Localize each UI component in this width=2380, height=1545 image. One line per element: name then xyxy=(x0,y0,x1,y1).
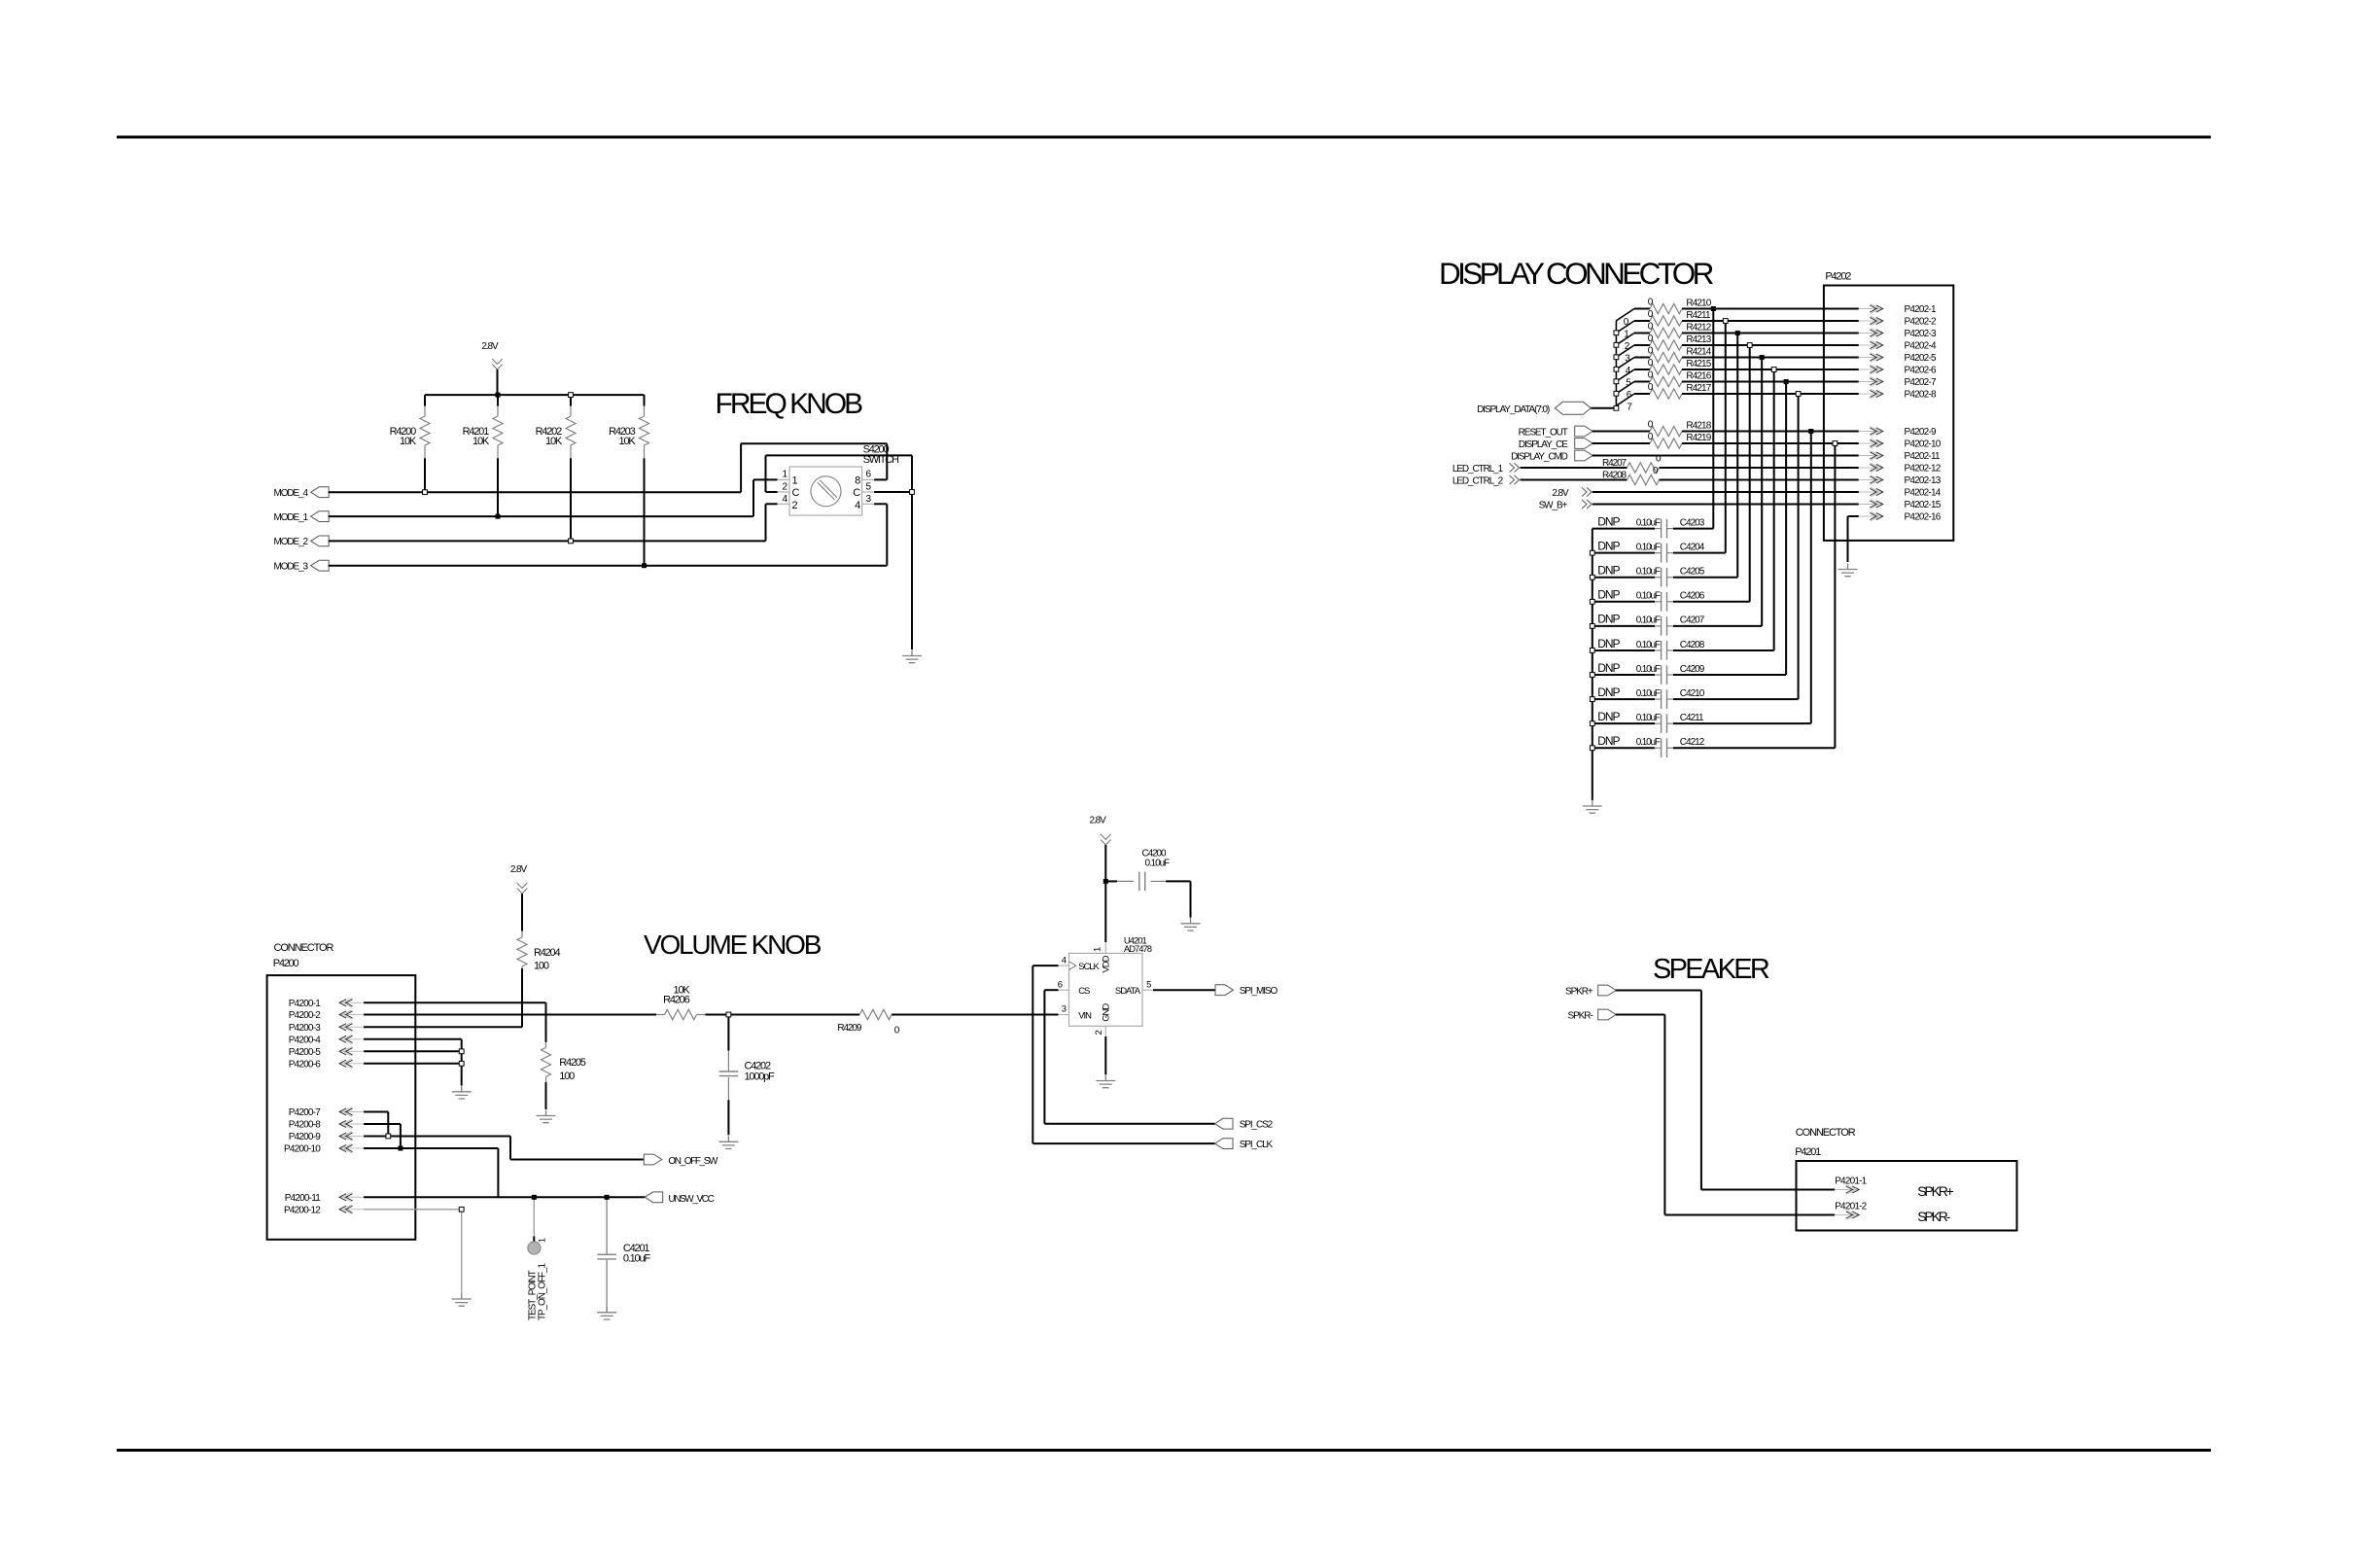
svg-text:R4207: R4207 xyxy=(1602,458,1627,469)
svg-text:R4208: R4208 xyxy=(1602,471,1627,481)
svg-text:5: 5 xyxy=(1146,979,1151,990)
svg-text:0.10uF: 0.10uF xyxy=(1636,737,1661,748)
svg-text:0.10uF: 0.10uF xyxy=(1636,517,1661,528)
svg-text:DNP: DNP xyxy=(1597,710,1620,723)
svg-text:P4202-14: P4202-14 xyxy=(1905,488,1942,499)
svg-text:SCLK: SCLK xyxy=(1078,962,1100,972)
svg-text:0.10uF: 0.10uF xyxy=(1636,664,1661,675)
svg-text:0.10uF: 0.10uF xyxy=(1636,567,1661,578)
svg-text:C4210: C4210 xyxy=(1680,688,1705,699)
svg-text:MODE_2: MODE_2 xyxy=(273,537,308,547)
svg-text:0.10uF: 0.10uF xyxy=(1636,542,1661,552)
svg-text:100: 100 xyxy=(559,1071,575,1082)
svg-text:P4200-5: P4200-5 xyxy=(289,1047,321,1058)
svg-text:SPKR+: SPKR+ xyxy=(1565,986,1593,997)
svg-text:P4201-2: P4201-2 xyxy=(1835,1201,1867,1211)
svg-text:P4200-8: P4200-8 xyxy=(289,1120,321,1131)
svg-text:P4202-4: P4202-4 xyxy=(1905,341,1937,352)
svg-text:0.10uF: 0.10uF xyxy=(1145,859,1171,869)
svg-text:DNP: DNP xyxy=(1597,539,1620,552)
svg-text:R4209: R4209 xyxy=(837,1023,862,1034)
svg-text:SPI_MISO: SPI_MISO xyxy=(1240,986,1278,997)
svg-text:DISPLAY_CMD: DISPLAY_CMD xyxy=(1511,451,1568,462)
svg-text:R4215: R4215 xyxy=(1686,359,1711,369)
svg-text:SPKR-: SPKR- xyxy=(1917,1209,1950,1224)
svg-text:CONNECTOR: CONNECTOR xyxy=(1796,1127,1856,1139)
svg-text:ON_OFF_SW: ON_OFF_SW xyxy=(668,1156,718,1167)
svg-text:R4206: R4206 xyxy=(663,995,689,1006)
svg-text:P4200-4: P4200-4 xyxy=(289,1035,321,1045)
svg-text:DNP: DNP xyxy=(1597,685,1620,699)
svg-text:DNP: DNP xyxy=(1597,734,1620,748)
svg-text:LED_CTRL_1: LED_CTRL_1 xyxy=(1452,464,1504,474)
svg-text:C4203: C4203 xyxy=(1680,517,1705,528)
svg-text:R4205: R4205 xyxy=(559,1057,585,1069)
svg-text:MODE_4: MODE_4 xyxy=(273,488,308,499)
svg-text:SDATA: SDATA xyxy=(1115,986,1141,997)
svg-text:C4208: C4208 xyxy=(1680,640,1705,650)
svg-text:UNSW_VCC: UNSW_VCC xyxy=(668,1194,714,1205)
svg-text:2.8V: 2.8V xyxy=(481,341,499,352)
svg-text:10K: 10K xyxy=(472,436,490,447)
svg-text:P4200-2: P4200-2 xyxy=(289,1010,321,1021)
svg-text:DISPLAY_CE: DISPLAY_CE xyxy=(1519,439,1568,450)
svg-text:P4202-2: P4202-2 xyxy=(1905,317,1937,328)
svg-text:VIN: VIN xyxy=(1078,1010,1092,1021)
svg-text:P4202-6: P4202-6 xyxy=(1905,366,1937,376)
svg-text:P4201-1: P4201-1 xyxy=(1835,1176,1867,1186)
svg-text:RESET_OUT: RESET_OUT xyxy=(1519,427,1568,438)
svg-text:P4202-1: P4202-1 xyxy=(1905,304,1937,315)
svg-text:P4200-1: P4200-1 xyxy=(289,999,321,1009)
svg-text:0.10uF: 0.10uF xyxy=(1636,640,1661,650)
svg-text:P4202-10: P4202-10 xyxy=(1905,439,1942,450)
svg-text:DISPLAY CONNECTOR: DISPLAY CONNECTOR xyxy=(1439,256,1714,291)
svg-text:GND: GND xyxy=(1101,1003,1111,1022)
svg-text:0.10uF: 0.10uF xyxy=(623,1253,650,1265)
svg-text:SPI_CLK: SPI_CLK xyxy=(1240,1140,1274,1150)
svg-text:R4218: R4218 xyxy=(1686,421,1711,432)
svg-text:P4202-13: P4202-13 xyxy=(1905,475,1942,486)
svg-text:P4200-11: P4200-11 xyxy=(285,1193,321,1204)
svg-text:R4211: R4211 xyxy=(1686,310,1711,321)
svg-text:2.8V: 2.8V xyxy=(510,864,528,875)
svg-text:P4200: P4200 xyxy=(273,958,299,969)
svg-text:R4213: R4213 xyxy=(1686,334,1711,345)
svg-text:C4212: C4212 xyxy=(1680,737,1705,748)
svg-text:DNP: DNP xyxy=(1597,613,1620,626)
svg-text:P4202-15: P4202-15 xyxy=(1905,500,1942,510)
svg-text:C4206: C4206 xyxy=(1680,591,1705,602)
svg-text:10K: 10K xyxy=(619,436,637,447)
svg-text:DNP: DNP xyxy=(1597,564,1620,578)
svg-text:0.10uF: 0.10uF xyxy=(1636,688,1661,699)
svg-text:AD7478: AD7478 xyxy=(1124,944,1152,955)
svg-text:2.8V: 2.8V xyxy=(1090,816,1107,826)
svg-text:DISPLAY_DATA(7:0): DISPLAY_DATA(7:0) xyxy=(1477,404,1550,415)
svg-text:R4214: R4214 xyxy=(1686,347,1711,358)
svg-text:DNP: DNP xyxy=(1597,514,1620,528)
svg-text:C4209: C4209 xyxy=(1680,664,1705,675)
svg-text:P4200-6: P4200-6 xyxy=(289,1059,321,1070)
svg-text:TP_ON_OFF_1: TP_ON_OFF_1 xyxy=(538,1263,548,1320)
svg-text:P4202: P4202 xyxy=(1825,271,1851,283)
svg-text:DNP: DNP xyxy=(1597,661,1620,675)
svg-text:10K: 10K xyxy=(400,436,417,447)
svg-text:2.8V: 2.8V xyxy=(1552,488,1569,499)
svg-text:P4200-7: P4200-7 xyxy=(289,1107,321,1118)
svg-text:P4202-5: P4202-5 xyxy=(1905,353,1937,364)
svg-text:VOLUME KNOB: VOLUME KNOB xyxy=(644,930,822,960)
svg-text:C4211: C4211 xyxy=(1680,713,1704,723)
svg-text:R4204: R4204 xyxy=(534,947,560,959)
svg-text:0.10uF: 0.10uF xyxy=(1636,713,1661,723)
svg-text:R4210: R4210 xyxy=(1686,298,1711,309)
svg-text:CONNECTOR: CONNECTOR xyxy=(274,942,334,954)
svg-text:LED_CTRL_2: LED_CTRL_2 xyxy=(1452,475,1504,486)
svg-text:C4204: C4204 xyxy=(1680,542,1705,552)
svg-text:P4202-16: P4202-16 xyxy=(1905,512,1942,523)
svg-text:VDD: VDD xyxy=(1101,955,1111,972)
svg-text:P4202-3: P4202-3 xyxy=(1905,329,1937,339)
svg-text:R4219: R4219 xyxy=(1686,433,1711,443)
svg-text:P4202-9: P4202-9 xyxy=(1905,427,1937,438)
svg-text:R4212: R4212 xyxy=(1686,323,1711,334)
svg-text:SWITCH: SWITCH xyxy=(863,454,899,466)
svg-text:CS: CS xyxy=(1078,986,1090,997)
svg-text:100: 100 xyxy=(534,961,549,972)
svg-text:0.10uF: 0.10uF xyxy=(1636,615,1661,626)
svg-text:SPKR-: SPKR- xyxy=(1568,1010,1593,1021)
svg-text:MODE_1: MODE_1 xyxy=(273,512,308,523)
svg-text:FREQ KNOB: FREQ KNOB xyxy=(716,388,863,420)
svg-text:P4200-9: P4200-9 xyxy=(289,1132,321,1142)
svg-text:P4202-7: P4202-7 xyxy=(1905,377,1937,388)
svg-text:0.10uF: 0.10uF xyxy=(1636,591,1661,602)
svg-text:C4207: C4207 xyxy=(1680,615,1705,626)
svg-text:1000pF: 1000pF xyxy=(745,1071,776,1083)
svg-text:SPKR+: SPKR+ xyxy=(1917,1183,1953,1199)
svg-text:MODE_3: MODE_3 xyxy=(273,562,308,573)
svg-text:DNP: DNP xyxy=(1597,588,1620,602)
svg-text:SW_B+: SW_B+ xyxy=(1539,500,1568,510)
svg-text:P4200-12: P4200-12 xyxy=(284,1205,321,1215)
svg-text:DNP: DNP xyxy=(1597,637,1620,650)
svg-text:SPEAKER: SPEAKER xyxy=(1653,954,1769,985)
svg-text:10K: 10K xyxy=(545,436,563,447)
svg-text:P4202-12: P4202-12 xyxy=(1905,464,1942,474)
svg-text:P4202-8: P4202-8 xyxy=(1905,390,1937,401)
svg-text:P4202-11: P4202-11 xyxy=(1905,451,1941,462)
svg-text:R4216: R4216 xyxy=(1686,371,1711,382)
svg-text:P4200-3: P4200-3 xyxy=(289,1023,321,1034)
svg-text:SPI_CS2: SPI_CS2 xyxy=(1240,1120,1274,1131)
svg-text:P4200-10: P4200-10 xyxy=(284,1144,321,1155)
svg-text:P4201: P4201 xyxy=(1795,1146,1821,1158)
svg-text:C4205: C4205 xyxy=(1680,567,1705,578)
svg-text:R4217: R4217 xyxy=(1686,383,1711,394)
